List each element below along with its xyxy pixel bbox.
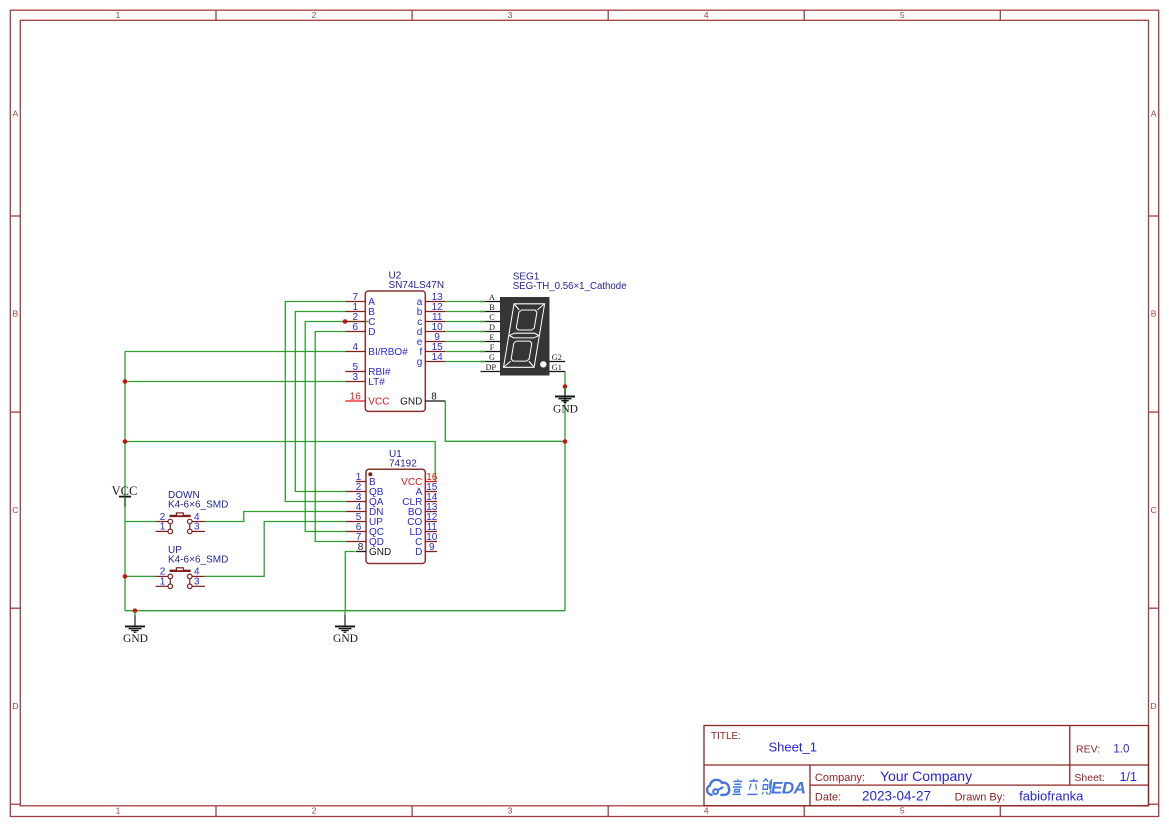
svg-text:5: 5: [900, 10, 905, 20]
svg-text:A: A: [489, 293, 495, 302]
svg-text:3: 3: [194, 522, 200, 533]
svg-text:16: 16: [350, 392, 362, 403]
title block: [704, 726, 1149, 806]
svg-text:Your Company: Your Company: [880, 768, 972, 784]
svg-text:B: B: [489, 303, 495, 312]
svg-text:Date:: Date:: [815, 792, 841, 804]
node GND rail tee: [133, 608, 138, 613]
svg-text:BI/RBO#: BI/RBO#: [368, 347, 408, 358]
node SEG1 GND tee: [563, 384, 568, 389]
svg-text:G2: G2: [552, 353, 562, 362]
svg-text:B: B: [1151, 309, 1157, 319]
wire U2.C to U1.QC: [305, 322, 368, 532]
svg-text:2: 2: [312, 10, 317, 20]
svg-text:Sheet_1: Sheet_1: [769, 740, 817, 755]
wire U1.GND pin 8 down to rail: [345, 552, 355, 611]
svg-text:9: 9: [429, 542, 435, 553]
wire U2.B to U1.QB: [295, 312, 346, 492]
wire UP pin 4 to U1.UP: [205, 522, 347, 577]
wire U2.d to SEG1.D: [445, 331, 482, 333]
svg-text:REV:: REV:: [1076, 744, 1100, 756]
svg-text:1: 1: [160, 577, 166, 588]
7-segment display SEG1 SEG-TH_0.56x1_Cathode: [481, 272, 627, 376]
svg-text:2023-04-27: 2023-04-27: [862, 789, 931, 804]
svg-text:A: A: [1151, 109, 1157, 119]
svg-text:C: C: [12, 505, 18, 515]
svg-text:4: 4: [704, 805, 709, 815]
svg-text:GND: GND: [333, 633, 358, 645]
svg-text:5: 5: [900, 805, 905, 815]
ground GND (left, VCC rail bottom): [123, 611, 148, 645]
svg-text:1: 1: [116, 805, 121, 815]
op IC U1 74192: [346, 449, 438, 564]
ground GND (middle, U1 pin 8): [333, 611, 358, 645]
wire U2.e to SEG1.E: [445, 341, 482, 343]
node GND tee: [563, 439, 568, 444]
svg-text:3: 3: [508, 10, 513, 20]
svg-text:GND: GND: [400, 397, 422, 408]
wire U2.c to SEG1.C: [445, 321, 482, 323]
svg-text:1: 1: [116, 10, 121, 20]
svg-text:D: D: [489, 323, 495, 332]
svg-text:D: D: [12, 701, 18, 711]
node VCC tee: [123, 439, 128, 444]
wire VCC to DOWN pin 2: [125, 521, 156, 523]
svg-text:F: F: [490, 343, 495, 352]
wire VCC vertical rail: [124, 352, 126, 611]
logo JLC EDA: [707, 779, 806, 798]
wire U2.b to SEG1.B: [445, 311, 482, 313]
svg-text:3: 3: [194, 577, 200, 588]
wire U2.GND pin 8 to GND net: [445, 401, 565, 441]
svg-text:6: 6: [353, 322, 359, 333]
svg-text:3: 3: [508, 805, 513, 815]
svg-text:1: 1: [160, 522, 166, 533]
wire U2.g to SEG1.G: [445, 361, 482, 363]
svg-text:GND: GND: [123, 633, 148, 645]
svg-text:A: A: [12, 109, 18, 119]
wire VCC to U2.BI/RBO#: [125, 351, 345, 353]
svg-text:G: G: [489, 353, 495, 362]
op IC U2 SN74LS47N: [345, 271, 445, 412]
wire U2.f to SEG1.F: [445, 351, 482, 353]
svg-text:E: E: [489, 333, 494, 342]
svg-text:74192: 74192: [389, 459, 417, 470]
ground GND (SEG1 common cathode): [553, 387, 578, 416]
wire overshoot at U2.C: [365, 321, 369, 323]
svg-text:4: 4: [353, 342, 359, 353]
svg-text:C: C: [489, 313, 495, 322]
svg-text:8: 8: [358, 542, 364, 553]
wire U2.a to SEG1.A: [445, 301, 482, 303]
svg-text:8: 8: [431, 392, 437, 403]
wire GND bottom rail: [125, 610, 565, 612]
svg-text:D: D: [368, 327, 375, 338]
svg-text:DP: DP: [486, 363, 497, 372]
wire U2.D to U1.QD: [315, 332, 346, 542]
svg-text:SEG-TH_0.56×1_Cathode: SEG-TH_0.56×1_Cathode: [513, 281, 627, 292]
pushbutton UP K4-6x6_SMD: [156, 545, 229, 589]
svg-text:Company:: Company:: [815, 772, 865, 784]
pushbutton DOWN K4-6x6_SMD: [156, 490, 229, 534]
svg-text:Sheet:: Sheet:: [1074, 772, 1104, 784]
svg-text:D: D: [415, 547, 422, 558]
wire DOWN pin 4 to U1.DN: [205, 512, 347, 522]
svg-text:1/1: 1/1: [1120, 770, 1137, 784]
svg-text:C: C: [1151, 505, 1157, 515]
svg-text:4: 4: [704, 10, 709, 20]
power flag VCC: [112, 484, 138, 507]
svg-text:SN74LS47N: SN74LS47N: [389, 280, 445, 291]
wire VCC to UP pin 2: [125, 575, 156, 577]
wire VCC to U1.VCC pin 16: [125, 442, 435, 481]
svg-text:G1: G1: [552, 363, 562, 372]
node UP-button tee: [123, 574, 128, 579]
svg-text:GND: GND: [553, 404, 578, 416]
svg-text:g: g: [417, 357, 423, 368]
svg-text:B: B: [12, 309, 18, 319]
svg-text:EDA: EDA: [771, 779, 806, 798]
node LT# tee: [123, 379, 128, 384]
svg-text:fabiofranka: fabiofranka: [1019, 789, 1084, 804]
svg-text:K4-6×6_SMD: K4-6×6_SMD: [168, 500, 228, 511]
node U2.C junction: [343, 319, 348, 324]
svg-text:14: 14: [432, 352, 444, 363]
svg-text:GND: GND: [369, 547, 391, 558]
wire SEG1.G1 to GND vertical: [564, 372, 566, 611]
wire VCC to U2.LT#: [125, 381, 345, 383]
svg-text:LT#: LT#: [368, 377, 385, 388]
wire U2.A to U1.QA: [285, 302, 346, 502]
svg-text:VCC: VCC: [368, 397, 389, 408]
svg-text:K4-6×6_SMD: K4-6×6_SMD: [168, 555, 228, 566]
svg-text:3: 3: [353, 372, 359, 383]
svg-text:D: D: [1151, 701, 1157, 711]
svg-text:TITLE:: TITLE:: [711, 731, 741, 742]
svg-text:2: 2: [312, 805, 317, 815]
svg-text:Drawn By:: Drawn By:: [955, 792, 1006, 804]
svg-text:1.0: 1.0: [1113, 744, 1129, 756]
